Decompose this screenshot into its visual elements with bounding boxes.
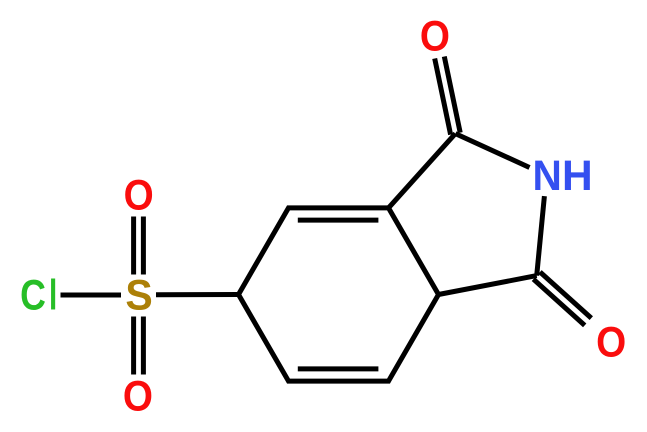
svg-text:O: O	[596, 318, 626, 366]
double bond C3=O	[533, 272, 591, 325]
atom label Cl, letter l	[49, 271, 57, 319]
svg-text:O: O	[420, 12, 450, 60]
svg-text:O: O	[123, 372, 153, 420]
svg-text:N: N	[533, 151, 562, 199]
svg-text:l: l	[49, 271, 57, 319]
atom label O of C3=O	[596, 318, 626, 366]
bond C3-C3a	[439, 276, 537, 295]
double bond S=O top	[134, 217, 144, 275]
bond C7a-C1	[389, 134, 456, 208]
atom label O of S=O top	[124, 171, 154, 219]
bond N-C3	[537, 196, 545, 276]
aromatic inner line top	[298, 218, 379, 223]
svg-text:O: O	[124, 171, 154, 219]
bond S-C5	[156, 292, 239, 297]
double bond S=O bottom	[134, 317, 144, 375]
svg-text:S: S	[125, 271, 152, 319]
svg-text:H: H	[562, 153, 593, 200]
atom label N of NH	[533, 151, 562, 199]
bond S-Cl	[61, 293, 122, 298]
benzene ring	[239, 208, 439, 381]
double bond C1=O	[435, 57, 461, 135]
atom label O of S=O bottom	[123, 372, 153, 420]
atom label S	[125, 271, 152, 319]
atom label O of C1=O	[420, 12, 450, 60]
atom label Cl, letter C	[20, 272, 46, 320]
atom label H of NH	[562, 153, 593, 200]
svg-text:C: C	[20, 272, 46, 320]
aromatic inner line bottom	[298, 366, 379, 371]
bond C1-N	[455, 134, 529, 168]
